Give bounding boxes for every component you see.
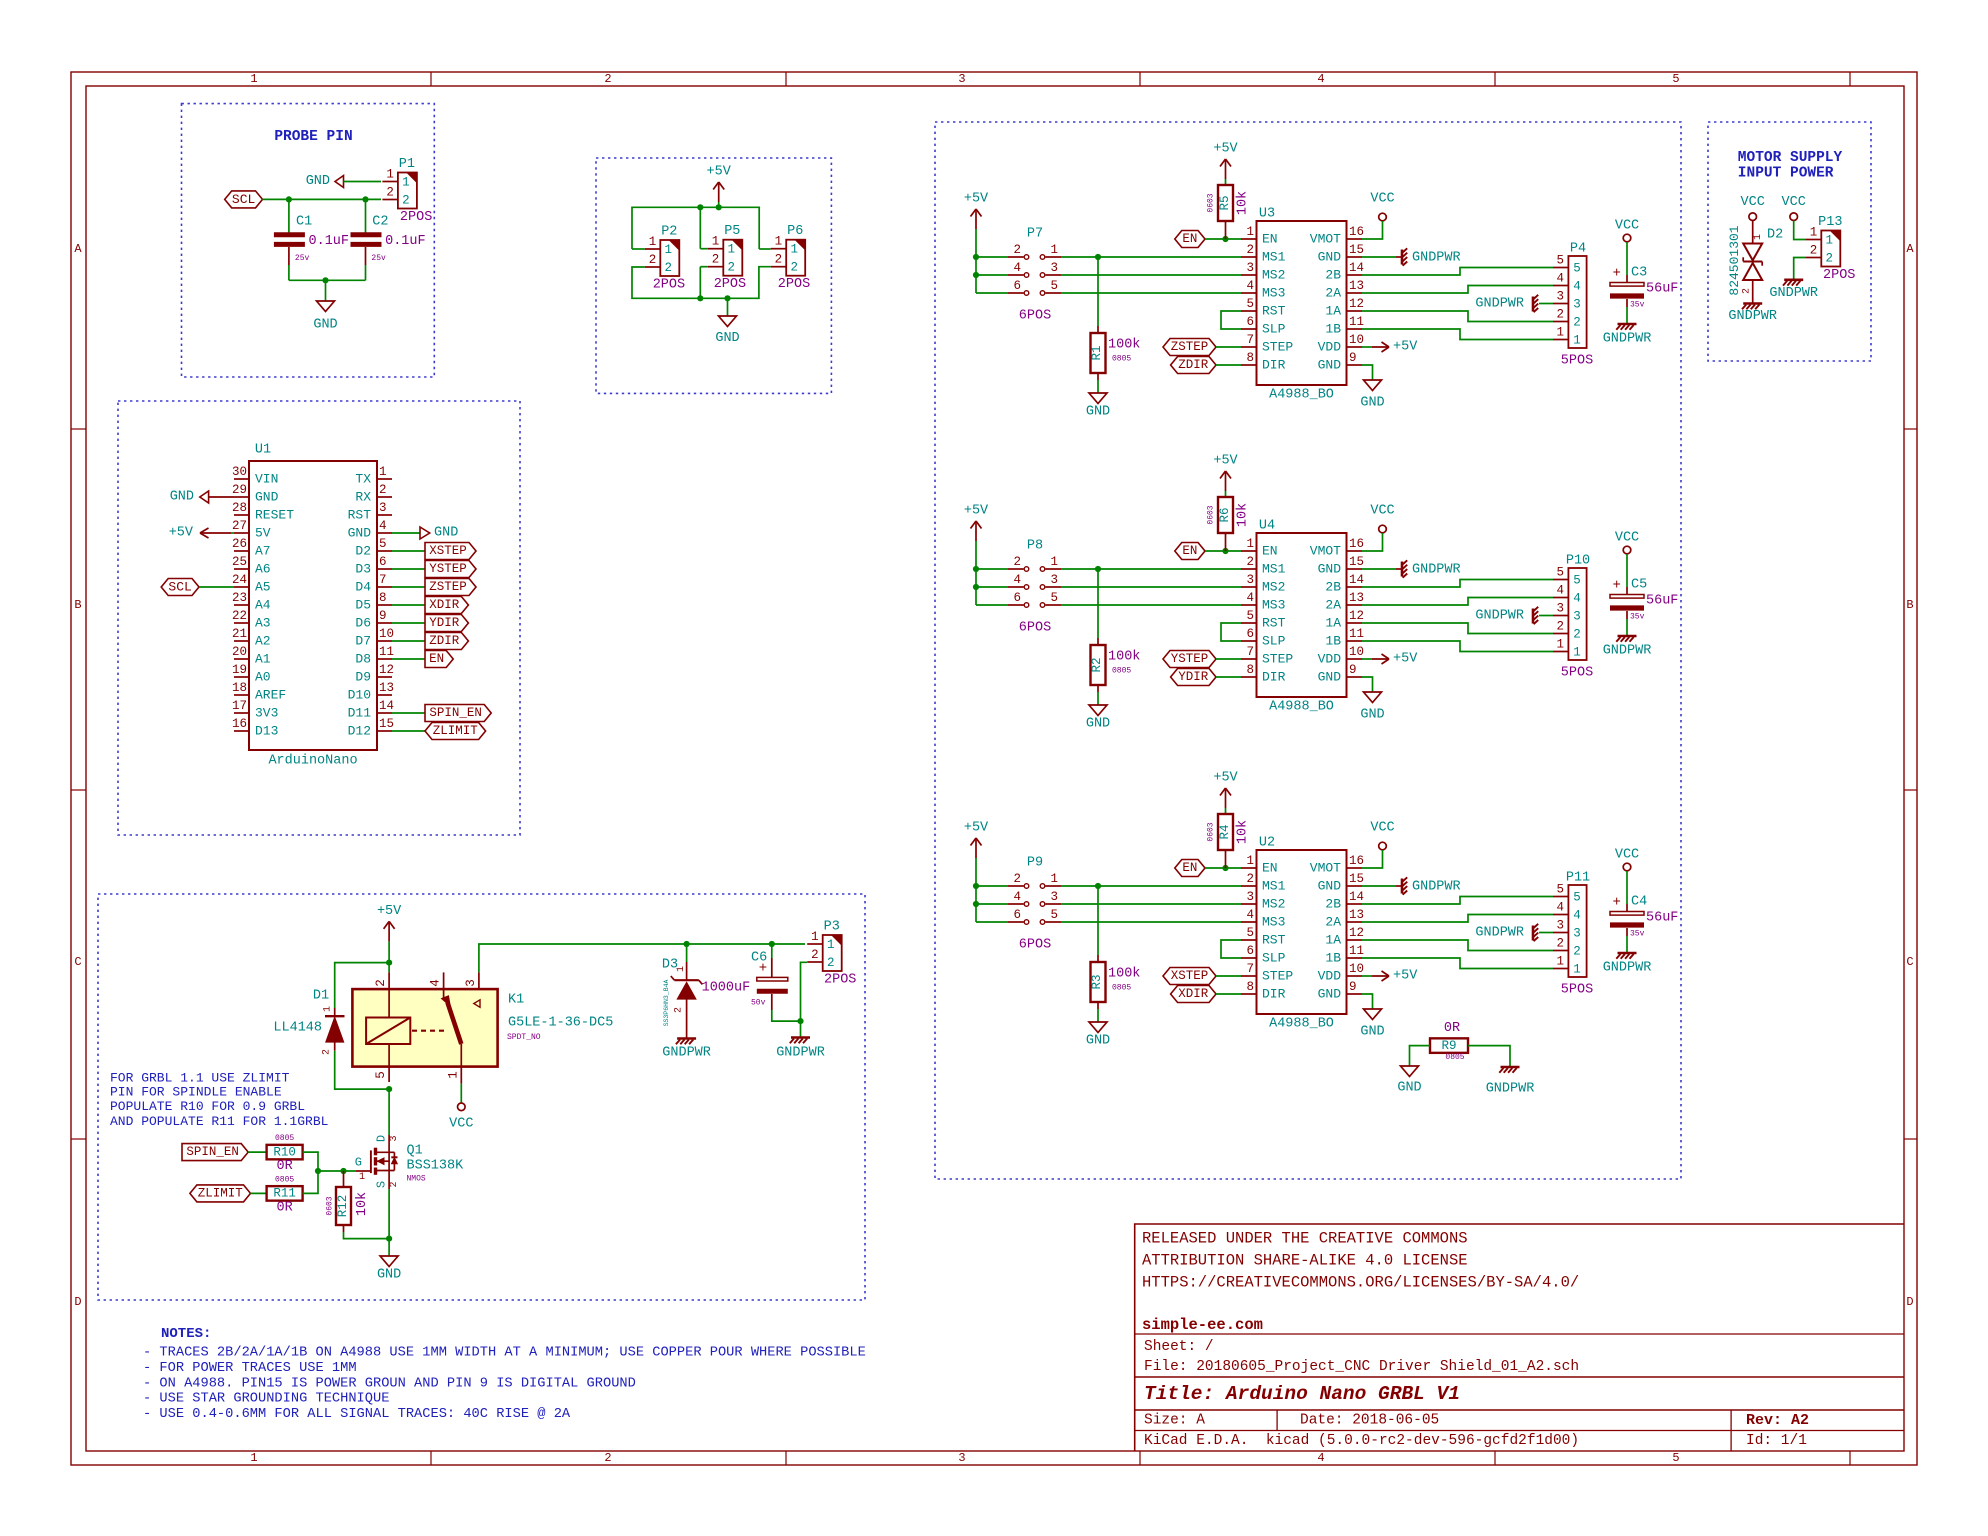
svg-text:EN: EN [1182, 861, 1197, 875]
svg-text:5: 5 [1672, 1451, 1679, 1465]
svg-text:VDD: VDD [1318, 652, 1342, 667]
svg-text:1A: 1A [1325, 304, 1341, 319]
svg-text:+: + [1612, 578, 1620, 594]
svg-text:+5V: +5V [1393, 969, 1418, 984]
svg-text:A4: A4 [255, 598, 271, 613]
svg-text:15: 15 [1349, 243, 1364, 257]
U3 pin 14 2B [1347, 274, 1363, 276]
U3 pin 7 STEP [1241, 346, 1257, 348]
U3 pin 4 MS3 [1241, 292, 1257, 294]
svg-text:7: 7 [1246, 333, 1254, 347]
svg-text:1B: 1B [1325, 951, 1341, 966]
svg-text:GNDPWR: GNDPWR [776, 1046, 825, 1061]
svg-text:C2: C2 [372, 215, 388, 230]
probe pin section dashed box [182, 104, 435, 377]
svg-text:P8: P8 [1027, 539, 1043, 554]
svg-text:GND: GND [1360, 396, 1384, 411]
svg-text:0805: 0805 [275, 1175, 294, 1184]
wire D1 to relay pin5 node [335, 1051, 389, 1089]
hier label EN [425, 651, 453, 668]
U1 pin 14 D11 [377, 712, 392, 714]
svg-text:- USE STAR GROUNDING TECHNIQUE: - USE STAR GROUNDING TECHNIQUE [143, 1392, 389, 1407]
ground GND below R2 [1089, 705, 1107, 716]
wire U1 to label SPIN_EN [392, 712, 425, 714]
wire ZLIMIT to R11 [251, 1192, 267, 1194]
svg-text:1: 1 [1050, 872, 1058, 886]
junction EN node (U4) [1222, 548, 1228, 554]
power GNDPWR below C6 [791, 1036, 810, 1039]
svg-text:SPIN_EN: SPIN_EN [186, 1145, 239, 1159]
svg-text:C: C [74, 955, 81, 969]
capacitor C3 56uF [1610, 283, 1644, 287]
ic U3 A4988_BO body [1257, 221, 1347, 385]
junction node C1 [286, 196, 292, 202]
wire ground rail of probe section [289, 279, 366, 281]
junction bottom rail at GND branch [724, 295, 730, 301]
svg-text:POPULATE R10 FOR 0.9 GRBL: POPULATE R10 FOR 0.9 GRBL [110, 1099, 305, 1114]
hier label XDIR [425, 597, 468, 614]
svg-text:0R: 0R [1444, 1021, 1460, 1036]
ground GND jumper section [719, 316, 737, 327]
svg-text:1: 1 [1573, 334, 1581, 348]
wire to resistor R3 [1097, 886, 1099, 955]
junction source net [386, 1236, 392, 1242]
svg-text:0805: 0805 [1445, 1053, 1464, 1062]
wire SPIN_EN to R10 [248, 1151, 266, 1153]
svg-text:VCC: VCC [1782, 195, 1806, 210]
svg-text:D1: D1 [313, 989, 329, 1004]
ground GND below R3 [1089, 1022, 1107, 1033]
wire P7 to U3 MS1 [1061, 256, 1241, 258]
svg-text:14: 14 [379, 699, 394, 713]
U1 pin 9 D6 [377, 622, 392, 624]
svg-text:A4988_BO: A4988_BO [1269, 1017, 1334, 1032]
power VCC above C3 [1623, 234, 1631, 242]
wire R9 to GND [1410, 1046, 1431, 1066]
wire VCC to VMOT [1362, 221, 1383, 239]
svg-text:0.1uF: 0.1uF [385, 234, 426, 249]
power GNDPWR at U2 pin15 [1401, 879, 1404, 894]
junction probe ground rail [322, 277, 328, 283]
wire +5V to P9 left pins [975, 858, 977, 922]
U3 pin 1 EN [1241, 238, 1257, 240]
svg-text:ZSTEP: ZSTEP [1171, 340, 1209, 354]
svg-text:G: G [355, 1156, 362, 1170]
U2 pin 14 2B [1347, 903, 1363, 905]
svg-text:2: 2 [1573, 945, 1581, 959]
U4 pin 16 VMOT [1347, 550, 1363, 552]
svg-text:GND: GND [1086, 405, 1110, 420]
svg-text:6POS: 6POS [1019, 938, 1051, 953]
driver section dashed box [935, 122, 1681, 1179]
svg-text:0603: 0603 [326, 1196, 335, 1215]
power +5V above R4 [1225, 788, 1227, 808]
svg-text:STEP: STEP [1262, 652, 1293, 667]
U4 pin 10 VDD [1347, 658, 1363, 660]
svg-text:MOTOR SUPPLY: MOTOR SUPPLY [1738, 150, 1843, 166]
U4 pin 5 RST [1241, 622, 1257, 624]
svg-text:STEP: STEP [1262, 340, 1293, 355]
svg-text:EN: EN [1262, 544, 1278, 559]
svg-text:GNDPWR: GNDPWR [1769, 286, 1818, 301]
junction P7 pin2 branch [973, 254, 979, 260]
svg-text:25: 25 [232, 555, 247, 569]
svg-text:D3: D3 [355, 562, 371, 577]
wire 2B to P10 pin5 [1362, 580, 1553, 588]
wire D2 to GNDPWR [1752, 280, 1754, 303]
svg-text:YSTEP: YSTEP [429, 562, 467, 576]
svg-text:5POS: 5POS [1561, 666, 1593, 681]
svg-text:D13: D13 [255, 724, 278, 739]
U3 pin 2 MS1 [1241, 256, 1257, 258]
svg-text:2: 2 [811, 948, 819, 962]
U4 pin 8 DIR [1241, 676, 1257, 678]
U2 pin 3 MS2 [1241, 903, 1257, 905]
junction P7 pin4 branch [973, 272, 979, 278]
svg-text:MS3: MS3 [1262, 915, 1285, 930]
svg-text:22: 22 [232, 609, 247, 623]
svg-text:1: 1 [379, 465, 387, 479]
svg-text:P4: P4 [1570, 242, 1586, 257]
svg-text:GND: GND [1397, 1081, 1421, 1096]
svg-text:A2: A2 [255, 634, 271, 649]
svg-text:RX: RX [355, 490, 371, 505]
svg-text:R11: R11 [273, 1187, 296, 1201]
svg-text:100k: 100k [1108, 650, 1140, 665]
wire XSTEP to STEP [1216, 975, 1241, 977]
svg-text:2B: 2B [1325, 897, 1341, 912]
svg-text:SPDT_NO: SPDT_NO [507, 1033, 541, 1042]
wire 2A to P10 pin4 [1362, 598, 1553, 606]
U3 pin 3 MS2 [1241, 274, 1257, 276]
U4 pin 9 GND [1347, 676, 1363, 678]
svg-text:25v: 25v [371, 254, 386, 263]
svg-text:GND: GND [255, 490, 279, 505]
svg-text:1: 1 [728, 243, 736, 257]
svg-text:3: 3 [1556, 919, 1564, 933]
svg-text:0603: 0603 [1207, 193, 1216, 212]
svg-text:GND: GND [1318, 670, 1342, 685]
U1 pin 1 TX [377, 478, 392, 480]
wire RST-SLP bridge (U4) [1221, 623, 1241, 641]
junction P8 pin4 branch [973, 584, 979, 590]
wire +5V node to D1 [335, 963, 389, 1008]
svg-text:50v: 50v [751, 999, 766, 1008]
svg-text:STEP: STEP [1262, 969, 1293, 984]
svg-text:1A: 1A [1325, 933, 1341, 948]
power GNDPWR below P13 [1784, 278, 1803, 281]
U1 pin 13 D10 [377, 694, 392, 696]
svg-text:4: 4 [1013, 261, 1021, 275]
svg-text:23: 23 [232, 591, 247, 605]
junction D3 node [684, 941, 690, 947]
svg-text:R6: R6 [1218, 507, 1232, 522]
svg-text:13: 13 [1349, 591, 1364, 605]
svg-text:10: 10 [1349, 333, 1364, 347]
wire 2B to P4 pin5 [1362, 268, 1553, 276]
U3 pin 6 SLP [1241, 328, 1257, 330]
svg-text:2: 2 [1826, 252, 1834, 266]
svg-text:R9: R9 [1441, 1039, 1456, 1053]
svg-text:GND: GND [1318, 250, 1342, 265]
junction EN node (U3) [1222, 236, 1228, 242]
svg-text:MS1: MS1 [1262, 250, 1286, 265]
capacitor C2 [365, 199, 367, 232]
wire U1 to label ZLIMIT [392, 730, 425, 732]
svg-text:3: 3 [1246, 261, 1254, 275]
U1 pin 26 A7 [234, 550, 249, 552]
hier label EN (U4) [1175, 543, 1205, 560]
U2 pin 13 2A [1347, 921, 1363, 923]
svg-text:XSTEP: XSTEP [1171, 969, 1209, 983]
svg-text:14: 14 [1349, 261, 1364, 275]
svg-text:2: 2 [712, 253, 720, 267]
svg-text:0R: 0R [276, 1159, 292, 1174]
svg-text:YDIR: YDIR [429, 616, 460, 630]
svg-text:6: 6 [1246, 315, 1254, 329]
svg-text:2A: 2A [1325, 915, 1341, 930]
wire C6 bottom to node [772, 1010, 801, 1021]
svg-text:GND: GND [313, 318, 337, 333]
wire P13 pin2 to GNDPWR [1794, 258, 1806, 279]
hier label ZLIMIT [425, 723, 486, 740]
svg-text:RESET: RESET [255, 508, 294, 523]
svg-text:1: 1 [712, 235, 720, 249]
svg-text:2: 2 [1742, 288, 1753, 294]
svg-text:ZLIMIT: ZLIMIT [433, 724, 479, 738]
power +5V at U4 VDD [1362, 658, 1372, 660]
svg-text:0805: 0805 [275, 1134, 294, 1143]
svg-text:2POS: 2POS [653, 278, 685, 293]
svg-text:GNDPWR: GNDPWR [1475, 609, 1524, 624]
svg-text:VCC: VCC [1615, 848, 1639, 863]
svg-text:2: 2 [1556, 937, 1564, 951]
svg-text:AND POPULATE R11 FOR 1.1GRBL: AND POPULATE R11 FOR 1.1GRBL [110, 1114, 328, 1129]
U2 pin 7 STEP [1241, 975, 1257, 977]
svg-text:P7: P7 [1027, 227, 1043, 242]
svg-text:5: 5 [1050, 591, 1058, 605]
ground GND below Q1 [380, 1256, 398, 1267]
svg-text:2: 2 [1246, 243, 1254, 257]
svg-text:13: 13 [1349, 279, 1364, 293]
power GNDPWR below C3 [1618, 323, 1637, 326]
wire P8 to U4 MS2 [1061, 586, 1241, 588]
svg-text:D12: D12 [348, 724, 371, 739]
title block divider lines [1135, 1333, 1904, 1335]
svg-text:56uF: 56uF [1646, 282, 1678, 297]
U1 pin 21 A2 [234, 640, 249, 642]
U2 pin 1 EN [1241, 867, 1257, 869]
wire P8 to U4 MS3 [1061, 604, 1241, 606]
power +5V jumper section [718, 182, 720, 202]
svg-text:GND: GND [306, 174, 330, 189]
capacitor C4 56uF [1610, 912, 1644, 916]
svg-text:2POS: 2POS [778, 277, 810, 292]
frame row ticks [71, 428, 86, 430]
svg-text:TX: TX [355, 472, 371, 487]
svg-text:5: 5 [1573, 891, 1581, 905]
svg-text:35v: 35v [1630, 613, 1645, 622]
svg-text:1: 1 [1050, 555, 1058, 569]
svg-text:6POS: 6POS [1019, 621, 1051, 636]
svg-text:B: B [74, 598, 81, 612]
hier label XSTEP [1163, 968, 1216, 985]
svg-text:2POS: 2POS [824, 973, 856, 988]
wire P8 to U4 MS1 [1061, 568, 1241, 570]
power +5V left rail (U4 block) [975, 521, 977, 541]
wire U1 to label XDIR [392, 604, 425, 606]
svg-text:10: 10 [379, 627, 394, 641]
svg-text:3: 3 [1050, 573, 1058, 587]
svg-text:+: + [1612, 895, 1620, 911]
svg-text:D9: D9 [355, 670, 371, 685]
svg-text:+5V: +5V [964, 192, 989, 207]
svg-text:1: 1 [402, 176, 410, 190]
relay K1 pin 2 [388, 972, 390, 989]
power +5V left rail (U2 block) [975, 838, 977, 858]
capacitor C6 1000uF [771, 944, 773, 958]
svg-text:BSS138K: BSS138K [407, 1159, 465, 1174]
svg-text:10: 10 [1349, 962, 1364, 976]
wire XDIR to DIR [1216, 993, 1241, 995]
svg-text:ZDIR: ZDIR [1178, 358, 1209, 372]
svg-text:P13: P13 [1818, 215, 1842, 230]
svg-text:MS2: MS2 [1262, 268, 1285, 283]
U2 pin 15 GND [1347, 885, 1363, 887]
svg-text:NOTES:: NOTES: [161, 1326, 211, 1342]
svg-text:P10: P10 [1566, 554, 1590, 569]
svg-text:2: 2 [379, 483, 387, 497]
wire to GND symbol [325, 280, 327, 301]
svg-text:2: 2 [674, 1007, 685, 1013]
svg-text:MS1: MS1 [1262, 562, 1286, 577]
power VCC above D2 [1749, 213, 1757, 221]
connector P7 6POS [1008, 256, 1024, 258]
U2 pin 16 VMOT [1347, 867, 1363, 869]
connector P11 5POS [1568, 885, 1586, 977]
U4 pin 3 MS2 [1241, 586, 1257, 588]
svg-text:6: 6 [1013, 279, 1021, 293]
wire U3 pin9 GND [1362, 365, 1373, 380]
svg-text:4: 4 [429, 979, 443, 987]
svg-text:3: 3 [958, 72, 965, 86]
svg-text:10k: 10k [1236, 191, 1251, 215]
svg-text:3: 3 [1246, 890, 1254, 904]
svg-text:2: 2 [386, 186, 394, 200]
svg-text:A6: A6 [255, 562, 271, 577]
power GNDPWR below D2 [1743, 302, 1762, 305]
hier label ZLIMIT spindle [190, 1185, 251, 1202]
svg-text:C5: C5 [1631, 578, 1647, 593]
svg-text:4: 4 [1246, 279, 1254, 293]
svg-text:2: 2 [1246, 555, 1254, 569]
svg-text:Title: Arduino Nano GRBL V1: Title: Arduino Nano GRBL V1 [1144, 1383, 1460, 1405]
U1 pin 4 GND [377, 532, 392, 534]
U4 pin 7 STEP [1241, 658, 1257, 660]
svg-text:3: 3 [1050, 890, 1058, 904]
svg-text:D5: D5 [355, 598, 371, 613]
svg-text:0603: 0603 [1207, 505, 1216, 524]
relay K1 body [352, 989, 497, 1067]
svg-text:SCL: SCL [232, 192, 255, 207]
U3 pin 10 VDD [1347, 346, 1363, 348]
svg-text:5: 5 [1246, 926, 1254, 940]
U1 pin 12 D9 [377, 676, 392, 678]
power VCC above C4 [1623, 863, 1631, 871]
svg-text:7: 7 [1246, 962, 1254, 976]
wire relay node to Q1 drain [388, 1089, 390, 1135]
wire 1A to P4 pin2 [1362, 311, 1553, 322]
power VCC at U4 VMOT [1379, 525, 1387, 533]
wire P5 pin1 link [700, 248, 708, 250]
svg-text:4: 4 [1573, 592, 1581, 606]
ic U4 A4988_BO body [1257, 533, 1347, 697]
svg-text:2A: 2A [1325, 286, 1341, 301]
resistor R4 10k [1225, 808, 1227, 814]
svg-text:Id: 1/1: Id: 1/1 [1746, 1433, 1807, 1449]
svg-text:A: A [74, 242, 82, 256]
junction EN node (U2) [1222, 865, 1228, 871]
U4 pin 11 1B [1347, 640, 1363, 642]
junction MS1 row to R2 [1095, 566, 1101, 572]
svg-text:GND: GND [348, 526, 372, 541]
svg-text:GNDPWR: GNDPWR [1475, 297, 1524, 312]
svg-text:2: 2 [374, 979, 388, 987]
svg-text:D11: D11 [348, 706, 372, 721]
svg-text:A5: A5 [255, 580, 271, 595]
svg-text:1: 1 [1050, 243, 1058, 257]
svg-text:3: 3 [1246, 573, 1254, 587]
junction P8 pin2 branch [973, 566, 979, 572]
U4 pin 12 1A [1347, 622, 1363, 624]
wire VCC to C4 [1626, 871, 1628, 904]
wire EN to U4 pin1 [1205, 550, 1241, 552]
hier label SCL at U1 pin24 [161, 579, 199, 596]
U1 pin 15 D12 [377, 730, 392, 732]
U1 pin 3 RST [377, 514, 392, 516]
svg-text:SLP: SLP [1262, 322, 1286, 337]
hier label ZDIR [425, 633, 468, 650]
relay K1 switch arm [448, 1003, 462, 1045]
svg-text:4: 4 [1013, 890, 1021, 904]
svg-text:MS1: MS1 [1262, 879, 1286, 894]
svg-text:4: 4 [1317, 1451, 1324, 1465]
svg-text:P9: P9 [1027, 856, 1043, 871]
svg-text:D4: D4 [355, 580, 371, 595]
svg-text:MS2: MS2 [1262, 580, 1285, 595]
U2 pin 8 DIR [1241, 993, 1257, 995]
ground GND at U4 pin9 [1364, 692, 1382, 703]
svg-text:GND: GND [1318, 562, 1342, 577]
wire node up to P3 pin2 [801, 962, 808, 1021]
svg-text:4: 4 [1556, 272, 1564, 286]
svg-text:30: 30 [232, 465, 247, 479]
svg-text:2: 2 [1573, 316, 1581, 330]
U1 pin 23 A4 [234, 604, 249, 606]
svg-text:- USE 0.4-0.6MM FOR ALL SIGNAL: - USE 0.4-0.6MM FOR ALL SIGNAL TRACES: 4… [143, 1407, 571, 1422]
svg-text:PROBE PIN: PROBE PIN [274, 129, 352, 145]
resistor R5 10k [1225, 179, 1227, 185]
svg-text:16: 16 [232, 717, 247, 731]
svg-text:20: 20 [232, 645, 247, 659]
junction relay pin5 node [386, 1086, 392, 1092]
svg-text:16: 16 [1349, 225, 1364, 239]
svg-text:VMOT: VMOT [1310, 544, 1341, 559]
wire ZDIR to DIR [1216, 364, 1241, 366]
junction P9 pin2 branch [973, 883, 979, 889]
connector P3 [823, 935, 842, 971]
svg-text:0603: 0603 [1207, 822, 1216, 841]
